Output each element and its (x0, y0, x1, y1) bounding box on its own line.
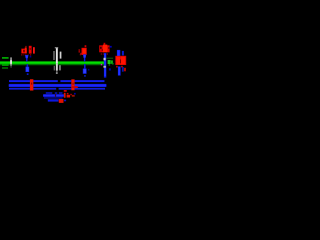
IC U3 pin mark (blue) (110, 46, 112, 48)
diode D2 anode lead (blue, to net) (83, 54, 87, 61)
IC U3 value label (red text) (99, 43, 109, 55)
bus wire row A (9, 80, 105, 82)
node A junction dot (magenta) (101, 64, 102, 66)
voltage source V1 plate (10, 57, 12, 67)
net name text line 1 (blue) (46, 92, 63, 94)
capacitor C2 lead lower (blue) (118, 66, 126, 75)
bus tap marker 2 (red) (71, 79, 78, 90)
diode D1 anode lead (blue, to net) (25, 55, 32, 62)
net name text line 3 (blue) (44, 97, 63, 98)
bus tap marker 1 (red) (30, 79, 34, 90)
inverter U4 (below net at D2, pointing down) (83, 64, 90, 77)
diode D1 cathode bar (33, 47, 35, 53)
net label (green text) (107, 58, 114, 66)
diode D2 value label (red text) (79, 45, 87, 55)
bus wire row C (9, 88, 105, 90)
capacitor C2 body (red) (115, 56, 126, 68)
value marker (red, lower line) (59, 99, 64, 103)
net name text line 4 (blue) (48, 99, 66, 101)
crystal X1 (white, straddling net) (53, 47, 61, 74)
wire: vertical blue net at U3 (103, 53, 110, 78)
ground symbol (left, rotated) (2, 57, 9, 69)
inverter U2 (below net, pointing down) (26, 64, 30, 75)
value label (red text, lower) (64, 90, 76, 98)
net name text line 2 (blue) (43, 94, 64, 97)
capacitor C2 lead upper (blue) (117, 50, 124, 57)
diode D1 value label (red text) (21, 46, 31, 56)
wire: main horizontal net (0, 61, 104, 66)
bus wire row B (9, 84, 107, 87)
